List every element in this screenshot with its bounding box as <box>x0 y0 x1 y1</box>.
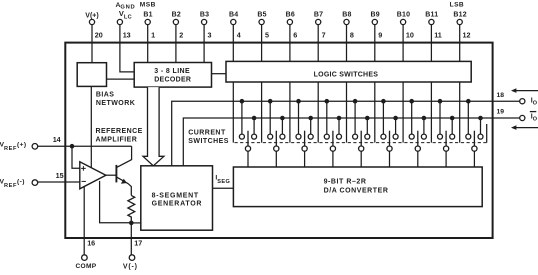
current switch cell 1 (bit B4) <box>233 82 260 167</box>
wire pin 10 <box>402 25 404 62</box>
svg-text:13: 13 <box>123 30 131 39</box>
svg-text:B12: B12 <box>453 11 466 18</box>
svg-text:B9: B9 <box>371 11 380 18</box>
svg-text:REFERENCE: REFERENCE <box>96 128 143 135</box>
svg-text:B5: B5 <box>257 11 266 18</box>
svg-text:17: 17 <box>134 238 142 247</box>
pin 16 COMP <box>83 187 85 255</box>
svg-text:10: 10 <box>406 30 414 39</box>
wire pin 8 <box>346 25 348 62</box>
wire decoder to logic switches <box>212 73 227 75</box>
wire pin 5 <box>261 25 263 62</box>
pin 12 (B12) terminal <box>457 19 462 24</box>
svg-text:6: 6 <box>293 30 297 39</box>
svg-text:V(-): V(-) <box>123 263 138 270</box>
pin 18 output IO <box>520 99 525 104</box>
current switch cell 7 (bit B10) <box>403 82 430 167</box>
pin 2 (B2) terminal <box>173 19 178 24</box>
pin 17 V(-) <box>130 223 132 255</box>
pin 8 (B8) terminal <box>344 19 349 24</box>
wire pin 6 <box>289 25 291 62</box>
svg-text:19: 19 <box>497 109 505 116</box>
wire bias to decoder <box>107 78 135 80</box>
wire VREF(+) to collector corner <box>38 145 132 147</box>
current switch cell 9 (bit B12) <box>460 82 487 167</box>
node dot VREF(+) branch <box>70 144 75 149</box>
pin 20 (V(+)) terminal <box>89 19 94 24</box>
resistor R1 <box>128 195 135 223</box>
svg-text:NETWORK: NETWORK <box>96 100 135 107</box>
svg-text:7: 7 <box>322 30 326 39</box>
svg-text:B6: B6 <box>286 11 295 18</box>
svg-text:AMPLIFIER: AMPLIFIER <box>96 136 138 143</box>
pin 1 (B1) terminal <box>145 19 150 24</box>
svg-text:B7: B7 <box>314 11 323 18</box>
svg-text:SWITCHES: SWITCHES <box>188 138 229 145</box>
svg-text:COMP: COMP <box>76 263 97 270</box>
current switch cell 3 (bit B6) <box>290 82 317 167</box>
arrow into IO-bar <box>511 125 538 130</box>
wire pin 11 <box>430 25 432 62</box>
svg-text:9: 9 <box>378 30 382 39</box>
svg-text:12: 12 <box>463 30 471 39</box>
svg-text:15: 15 <box>56 171 64 180</box>
pin 19 output IO-bar <box>520 115 525 120</box>
svg-text:16: 16 <box>87 238 95 247</box>
pin 15 VREF(-) <box>32 180 38 186</box>
current switch cell 6 (bit B9) <box>375 82 402 167</box>
wire amplifier to V(-) node <box>100 181 132 223</box>
wire junction to 8-segment generator <box>131 222 141 224</box>
svg-text:3: 3 <box>208 30 212 39</box>
8-segment generator box <box>141 166 213 230</box>
pin 9 (B9) terminal <box>372 19 377 24</box>
wire pin 1 <box>147 25 149 63</box>
svg-text:1: 1 <box>151 30 155 39</box>
svg-text:B4: B4 <box>229 11 238 18</box>
svg-text:8-SEGMENT: 8-SEGMENT <box>152 193 199 200</box>
node V(-) junction <box>129 221 134 226</box>
wire pin 13 <box>120 25 134 72</box>
wire pin 4 <box>232 25 234 62</box>
wire pin 3 <box>203 25 205 63</box>
wire bias network to reference amplifier <box>90 86 92 167</box>
svg-text:4: 4 <box>237 30 241 39</box>
bus arrow decoder to 8-segment generator <box>143 87 164 166</box>
current switch cell 2 (bit B5) <box>262 82 289 167</box>
9-bit R-2R D/A converter box <box>233 167 482 207</box>
bus IO (pin 18 net) <box>172 101 520 166</box>
bias network box <box>77 63 106 87</box>
svg-text:14: 14 <box>53 135 61 144</box>
svg-text:3 - 8 LINE: 3 - 8 LINE <box>154 68 190 75</box>
svg-text:B1: B1 <box>143 11 152 18</box>
svg-text:9-BIT R–2R: 9-BIT R–2R <box>324 179 367 186</box>
pin 4 (B4) terminal <box>231 19 236 24</box>
svg-text:GENERATOR: GENERATOR <box>152 200 203 207</box>
wire to non-inverting input <box>72 146 80 168</box>
wire ISEG 8-segment generator to R-2R <box>213 187 234 189</box>
wire pin 9 <box>374 25 376 62</box>
svg-text:CURRENT: CURRENT <box>188 130 226 137</box>
transistor Q1 <box>106 146 132 195</box>
svg-text:B10: B10 <box>397 11 410 18</box>
svg-text:LSB: LSB <box>450 1 465 8</box>
svg-text:8: 8 <box>350 30 354 39</box>
current switch cell 4 (bit B7) <box>318 82 345 167</box>
svg-text:D/A CONVERTER: D/A CONVERTER <box>324 188 389 195</box>
wire pin 20 <box>91 25 93 63</box>
pin 13 (VLC) terminal <box>117 19 122 24</box>
svg-text:20: 20 <box>95 30 103 39</box>
svg-text:B2: B2 <box>172 11 181 18</box>
pin 5 (B5) terminal <box>259 19 264 24</box>
logic switches box <box>226 61 471 82</box>
svg-text:LOGIC SWITCHES: LOGIC SWITCHES <box>314 72 379 79</box>
pin 10 (B10) terminal <box>401 19 406 24</box>
svg-text:11: 11 <box>434 30 442 39</box>
svg-text:B8: B8 <box>342 11 351 18</box>
svg-text:B11: B11 <box>425 11 438 18</box>
svg-text:V(+): V(+) <box>85 12 98 19</box>
svg-text:DECODER: DECODER <box>154 76 191 83</box>
chip outline <box>65 43 492 238</box>
arrow into IO <box>511 88 538 93</box>
pin 6 (B6) terminal <box>287 19 292 24</box>
svg-text:BIAS: BIAS <box>96 91 115 98</box>
pin 7 (B7) terminal <box>316 19 321 24</box>
wire VREF(-) to inverting input <box>38 181 80 183</box>
pin 14 VREF(+) <box>32 144 38 150</box>
current switch cell 5 (bit B8) <box>347 82 374 167</box>
wire pin 7 <box>317 25 319 62</box>
3-8 line decoder box <box>134 63 211 88</box>
pin 3 (B3) terminal <box>202 19 207 24</box>
bus IO-bar (pin 19 net) <box>183 118 519 166</box>
pin 11 (B11) terminal <box>429 19 434 24</box>
svg-text:MSB: MSB <box>140 1 156 8</box>
svg-text:2: 2 <box>179 30 183 39</box>
svg-text:B3: B3 <box>200 11 209 18</box>
wire pin 12 <box>459 25 461 62</box>
svg-text:18: 18 <box>497 92 505 99</box>
current switch cell 8 (bit B11) <box>431 82 458 167</box>
svg-text:5: 5 <box>265 30 269 39</box>
op-amp U1 reference amplifier <box>80 162 106 189</box>
wire pin 2 <box>175 25 177 63</box>
